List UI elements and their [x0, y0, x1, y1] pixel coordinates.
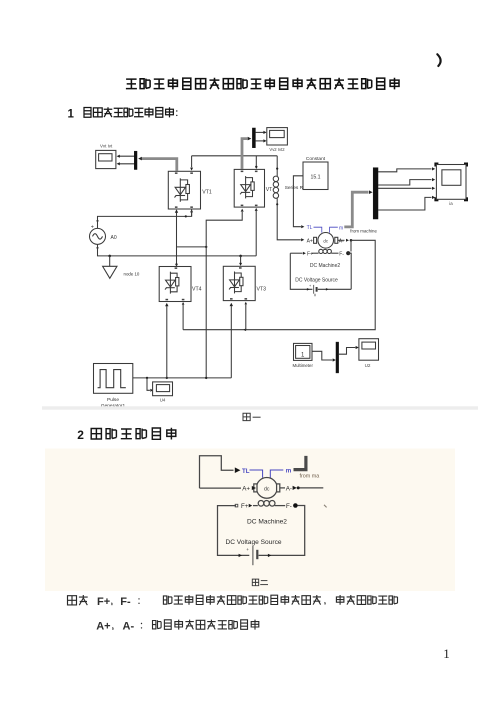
fig2 blue wire m: [270, 470, 283, 478]
wire VT1 k elbow: [191, 209, 193, 216]
field winding coil: [319, 249, 323, 253]
svg-text:dc: dc: [323, 238, 328, 243]
gate riser to VT2: [206, 212, 242, 378]
thyristor VT2: [234, 169, 264, 207]
fig2 A- wire: [280, 487, 285, 489]
gate wire VT4 from pulse bus: [165, 303, 168, 306]
svg-text:F+: F+: [97, 596, 110, 608]
wire top bus (VT1/VT2 cathode bus): [192, 155, 278, 157]
fig2 blue wire TL: [250, 470, 263, 478]
ground node 10: [109, 256, 111, 266]
svg-text:VT: VT: [266, 187, 273, 193]
fig2 field loop right edge: [259, 506, 305, 556]
stray close-paren top right: [437, 54, 440, 66]
demux Demux3: [373, 168, 378, 219]
svg-text:TL: TL: [307, 225, 313, 231]
lineB run: [153, 620, 259, 630]
fig2 stray tick: [324, 505, 327, 508]
AC voltage source A0: [90, 228, 106, 244]
svg-text:F+: F+: [241, 503, 249, 510]
svg-text:node 10: node 10: [124, 271, 140, 276]
svg-text:Series R: Series R: [285, 185, 304, 191]
wire demux2 to scope2 input 1: [255, 131, 263, 133]
lineA part1: [163, 595, 321, 605]
heading2 run: [91, 428, 176, 440]
fig2 battery symbol: [252, 546, 254, 565]
svg-text:+: +: [91, 225, 94, 231]
branch to scope U4: [147, 378, 150, 390]
svg-text:A-: A-: [339, 238, 344, 244]
svg-text:VT1: VT1: [202, 189, 212, 195]
fig2 A+ wire: [200, 487, 242, 489]
caption 图二: [252, 579, 258, 586]
svg-text:from machine: from machine: [350, 229, 377, 234]
thyristor VT4: [159, 267, 191, 302]
battery DC Voltage Source symbol: [313, 285, 315, 294]
svg-text:1: 1: [68, 109, 75, 121]
fig2 F- dot: [293, 503, 298, 508]
fig2 dc machine circle: [256, 478, 277, 499]
svg-text:TL: TL: [242, 468, 250, 475]
svg-text:F+: F+: [307, 252, 313, 258]
svg-text:Multimeter: Multimeter: [292, 363, 313, 368]
svg-text:Pulse: Pulse: [107, 397, 119, 403]
fig2 thick wire from machine: [294, 456, 306, 470]
thyristor VT3: [223, 266, 255, 300]
svg-text:ia: ia: [449, 201, 453, 206]
svg-text:DC Voltage Source: DC Voltage Source: [225, 539, 281, 546]
figure1 bottom edge band: [42, 406, 478, 409]
heading1 run: [84, 107, 173, 117]
title run: [126, 78, 399, 90]
scope ia selection handles: [434, 163, 438, 167]
svg-text:2: 2: [77, 428, 84, 442]
scope U4: [153, 382, 173, 396]
svg-text:Vv2 Ivt2: Vv2 Ivt2: [269, 147, 285, 152]
wire multimeter to Demux4: [312, 351, 333, 360]
wire A- to F- link: [350, 240, 352, 251]
svg-text:DC Machine2: DC Machine2: [247, 518, 287, 525]
scope U2: [359, 339, 379, 361]
svg-text:F-: F-: [339, 252, 344, 258]
wire Constant to TL: [293, 176, 303, 227]
field loop right edge: [348, 253, 351, 289]
svg-text:VT3: VT3: [257, 286, 267, 292]
wire node bus top into VT1 a: [191, 156, 193, 168]
pulse bus wire: [133, 377, 232, 379]
wire AC- up to VT2 k: [255, 211, 257, 256]
caption 图一: [243, 413, 250, 420]
thick wire from machine m to Demux3: [344, 192, 368, 227]
scope Vvt Ivt: [96, 150, 116, 168]
VT3 k riser: [245, 302, 248, 305]
svg-text:A+: A+: [242, 486, 250, 493]
svg-text:F-: F-: [120, 596, 131, 608]
svg-text:dc: dc: [264, 486, 270, 492]
wire demux2 to scope2 input 2: [255, 140, 263, 142]
wire TL blue: [314, 227, 322, 232]
svg-text:U4: U4: [160, 398, 166, 403]
svg-text:from ma: from ma: [300, 473, 320, 479]
qizhong: [68, 595, 88, 605]
thyristor VT1: [168, 171, 200, 209]
inductor Series R coil: [273, 176, 278, 181]
svg-text:DC Machine2: DC Machine2: [310, 263, 341, 269]
svg-text:VT4: VT4: [192, 286, 202, 292]
gate wire VT3 from pulse bus: [230, 303, 233, 306]
dc machine DC Machine2 (fig1): [318, 233, 334, 249]
svg-text:A-: A-: [286, 485, 292, 492]
inductor Series R lead: [276, 156, 278, 176]
gate wire VT1 from pulse bus: [175, 209, 178, 212]
figure2 background: [45, 449, 455, 592]
gate cross link: [177, 246, 207, 248]
fig2 field loop left/top: [218, 506, 250, 556]
junction to VT3 a: [239, 255, 242, 258]
wire m blue: [330, 227, 338, 232]
node F- dot: [346, 251, 350, 255]
lineA part2: [336, 595, 397, 605]
wire armature return A- down to cathode bus: [183, 240, 375, 329]
svg-text:1: 1: [443, 646, 450, 661]
inductor bottom lead to A+: [277, 198, 301, 240]
wire demux1 to scope input 2: [120, 163, 137, 165]
svg-text:Constant: Constant: [306, 156, 326, 162]
wires Demux3 to scope ia: [378, 169, 432, 172]
svg-text:15.1: 15.1: [310, 174, 320, 180]
wire AC+ to VT1 k: [98, 212, 192, 228]
thick measurement wire VT1 m to Demux1: [142, 159, 177, 171]
svg-text:+: +: [309, 284, 312, 288]
scope Vv2 Ivt2: [267, 128, 288, 145]
wire demux1 to scope input 1: [120, 155, 137, 157]
field loop: F+ wire: [290, 252, 302, 254]
svg-text:F-: F-: [286, 503, 292, 510]
multimeter block: [294, 343, 313, 360]
svg-text:+: +: [246, 547, 249, 552]
demux Demux1: [134, 151, 137, 169]
svg-text:m: m: [339, 225, 343, 231]
svg-text:A+: A+: [96, 621, 110, 633]
scope ia: [436, 165, 466, 200]
node junction above VT2: [255, 156, 257, 166]
svg-text:A+: A+: [307, 238, 313, 244]
svg-text:m: m: [286, 468, 292, 475]
wire AC- bus: [98, 244, 257, 256]
VT4 k riser: [182, 302, 185, 305]
demux Demux2: [252, 128, 255, 148]
AC source port arrows: [96, 220, 99, 223]
svg-text:DC Voltage Source: DC Voltage Source: [295, 278, 338, 284]
svg-text:A0: A0: [111, 235, 117, 241]
field loop left edge and bottom with DC Voltage Source: [290, 253, 312, 289]
pulse generator block Pulse Generator1: [94, 364, 133, 394]
thick measurement wire VT2 m to Demux2: [242, 139, 248, 169]
svg-text:A-: A-: [123, 621, 135, 633]
fig2 field coil: [258, 501, 264, 507]
svg-text:Vvt Ivt: Vvt Ivt: [100, 143, 113, 148]
demux Demux4: [336, 342, 339, 373]
wire Demux4 to scope U2: [339, 348, 356, 355]
fig2 top wire: [200, 456, 234, 488]
svg-text:U2: U2: [365, 363, 371, 368]
